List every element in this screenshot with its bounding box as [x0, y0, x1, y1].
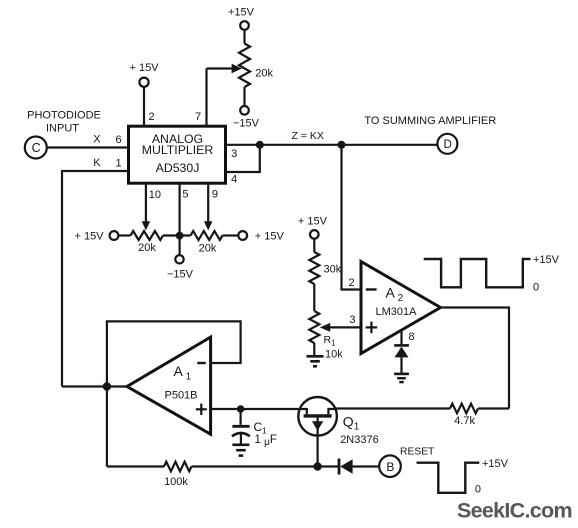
wire — [353, 465, 380, 467]
potentiometer 20k (X offset) — [131, 231, 164, 240]
potentiometer R1 10k — [309, 311, 319, 343]
svg-text:3: 3 — [231, 148, 237, 160]
wire — [118, 234, 130, 236]
svg-text:P501B: P501B — [164, 389, 197, 401]
node junction — [338, 141, 346, 149]
resistor 30k — [309, 252, 319, 284]
diode (reset) — [338, 459, 341, 475]
resistor 100k — [164, 462, 192, 472]
plus sign (A2) — [366, 326, 378, 328]
ground (R1) — [307, 355, 324, 358]
svg-text:X: X — [93, 133, 101, 145]
ground (pin 8) — [394, 373, 409, 376]
svg-text:2N3376: 2N3376 — [340, 434, 379, 446]
wiper arrow (pin 9) — [204, 221, 213, 230]
power -15V (top trim pot) — [240, 106, 249, 115]
ground (C1) — [232, 443, 249, 446]
svg-text:D: D — [443, 139, 451, 151]
svg-text:AD530J: AD530J — [156, 161, 200, 175]
svg-text:20k: 20k — [199, 243, 217, 255]
svg-text:20k: 20k — [255, 68, 273, 80]
svg-text:Z = KX: Z = KX — [292, 130, 324, 142]
plus sign (A1) — [196, 408, 207, 410]
svg-text:+ 15V: + 15V — [129, 62, 159, 74]
wire — [240, 409, 242, 425]
wire — [47, 146, 129, 148]
svg-text:0: 0 — [475, 483, 481, 495]
svg-text:100k: 100k — [164, 476, 188, 488]
svg-text:5: 5 — [182, 189, 188, 201]
svg-text:7: 7 — [195, 111, 201, 123]
wiper arrow (R1) — [320, 323, 330, 332]
svg-text:+15V: +15V — [228, 6, 255, 18]
wire — [106, 387, 108, 467]
transistor Q1 2N3376 — [298, 397, 337, 436]
node junction — [176, 232, 184, 240]
svg-text:30k: 30k — [324, 263, 342, 275]
power +15V (right pot) — [238, 231, 247, 240]
wire — [143, 87, 145, 127]
wiper arrow (pin 10) — [142, 221, 151, 230]
op-amp A1 — [127, 337, 211, 434]
svg-text:9: 9 — [212, 189, 218, 201]
wire — [400, 357, 402, 373]
wire — [107, 321, 241, 386]
wire — [313, 239, 315, 252]
wire — [223, 234, 239, 236]
svg-text:2: 2 — [148, 111, 154, 123]
wire — [62, 171, 129, 387]
terminal B (reset) — [379, 455, 401, 477]
wire — [342, 145, 362, 290]
power -15V (pin 5) — [175, 255, 183, 263]
wire — [478, 407, 509, 409]
wire — [211, 408, 300, 410]
wire — [313, 284, 315, 311]
potentiometer 20k (K offset) — [191, 231, 223, 240]
svg-text:1: 1 — [116, 157, 122, 169]
svg-text:+ 15V: + 15V — [298, 215, 328, 227]
svg-text:−15V: −15V — [167, 269, 194, 281]
svg-text:+15V: +15V — [533, 254, 560, 266]
svg-text:0: 0 — [533, 281, 539, 293]
wiper arrow (top trim pot) — [232, 64, 242, 74]
wire — [163, 234, 191, 236]
wire — [243, 87, 245, 106]
svg-text:RESET: RESET — [400, 446, 435, 457]
wire — [107, 465, 164, 467]
svg-text:20k: 20k — [138, 242, 156, 254]
svg-text:PHOTODIODE: PHOTODIODE — [27, 110, 101, 122]
wire — [207, 183, 209, 222]
wire — [62, 385, 127, 387]
reset pulse annotation — [417, 463, 480, 493]
wire — [400, 330, 402, 344]
terminal C (photodiode input) — [25, 137, 47, 159]
diode (pin 8 comp) — [394, 344, 409, 347]
svg-text:+ 15V: + 15V — [74, 231, 104, 243]
resistor 4.7k — [450, 404, 478, 414]
analog multiplier AD530J box — [129, 126, 226, 183]
svg-text:TO SUMMING AMPLIFIER: TO SUMMING AMPLIFIER — [364, 115, 496, 127]
svg-text:+ 15V: + 15V — [255, 231, 285, 243]
terminal D (to summing amplifier) — [437, 134, 457, 154]
svg-text:4.7k: 4.7k — [454, 415, 475, 427]
svg-text:SeekIC.com: SeekIC.com — [457, 499, 572, 523]
potentiometer 20k (top trim) — [239, 44, 250, 88]
svg-text:6: 6 — [116, 134, 122, 146]
svg-text:MULTIPLIER: MULTIPLIER — [142, 143, 214, 157]
wire — [240, 434, 242, 444]
wire — [207, 67, 232, 69]
wire — [330, 326, 362, 328]
minus sign (A2) — [366, 288, 377, 290]
wire — [317, 436, 319, 467]
wire — [192, 465, 339, 467]
wire — [243, 30, 245, 44]
svg-text:+15V: +15V — [482, 458, 509, 470]
capacitor C1 1uF — [232, 425, 249, 428]
wire — [226, 144, 438, 146]
wire — [205, 69, 207, 128]
svg-text:B: B — [386, 460, 394, 474]
svg-text:K: K — [93, 157, 101, 169]
square wave annotation — [424, 259, 531, 287]
wire — [335, 407, 450, 409]
svg-text:C: C — [32, 141, 41, 155]
node junction — [256, 141, 264, 149]
svg-text:8: 8 — [408, 331, 414, 343]
svg-text:1 μF: 1 μF — [255, 434, 277, 448]
minus sign (A1) — [197, 362, 206, 364]
svg-text:2: 2 — [349, 277, 355, 289]
node junction (C1 top) — [237, 405, 245, 413]
op-amp A2 — [361, 262, 441, 354]
node junction (Q1 source) — [313, 462, 321, 470]
svg-text:4: 4 — [231, 174, 237, 186]
svg-text:LM301A: LM301A — [376, 306, 418, 318]
svg-text:10k: 10k — [325, 349, 343, 361]
wire — [313, 343, 315, 357]
wire — [226, 145, 260, 172]
wire — [145, 183, 147, 222]
wire — [441, 308, 510, 409]
svg-text:−15V: −15V — [233, 117, 260, 129]
svg-text:10: 10 — [149, 189, 161, 201]
svg-text:3: 3 — [349, 314, 355, 326]
svg-text:INPUT: INPUT — [46, 123, 79, 135]
node junction (A1 output) — [103, 382, 111, 390]
wire — [179, 183, 181, 255]
